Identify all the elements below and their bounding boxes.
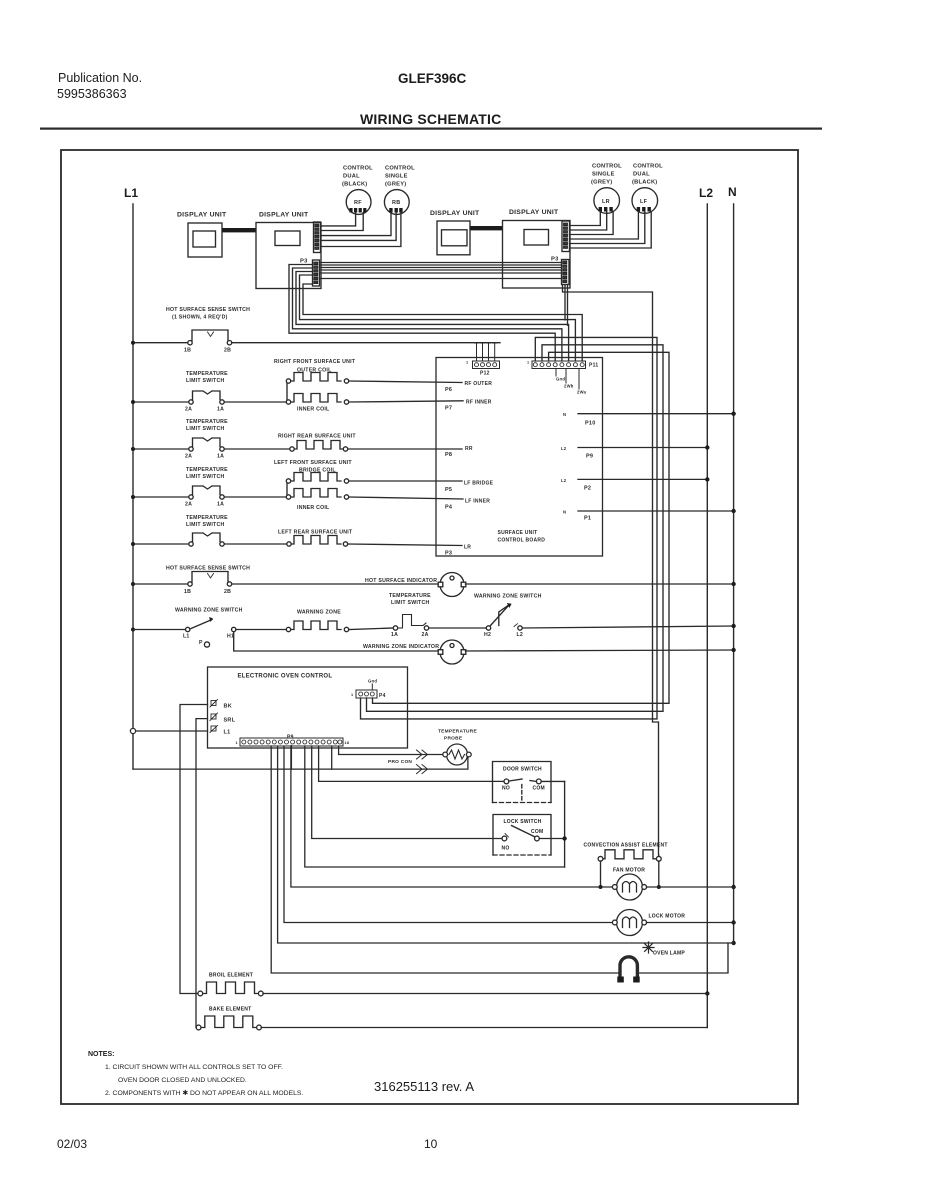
svg-text:Publication No.: Publication No.	[58, 71, 142, 85]
svg-text:NO: NO	[502, 846, 510, 852]
svg-text:RF: RF	[354, 200, 362, 206]
svg-text:P3: P3	[551, 257, 559, 263]
svg-text:PRO CON: PRO CON	[388, 759, 412, 765]
svg-text:LOCK SWITCH: LOCK SWITCH	[504, 819, 542, 825]
svg-text:1A: 1A	[217, 407, 224, 413]
svg-text:LOCK MOTOR: LOCK MOTOR	[649, 914, 686, 920]
svg-text:5995386363: 5995386363	[57, 87, 127, 101]
svg-text:P10: P10	[585, 421, 596, 427]
svg-text:DISPLAY UNIT: DISPLAY UNIT	[430, 210, 480, 217]
svg-text:(1 SHOWN, 4 REQ'D): (1 SHOWN, 4 REQ'D)	[172, 315, 228, 321]
svg-text:FAN MOTOR: FAN MOTOR	[613, 868, 645, 874]
svg-text:WARNING ZONE INDICATOR: WARNING ZONE INDICATOR	[363, 644, 439, 650]
svg-text:1: 1	[466, 361, 468, 365]
svg-text:CONTROL BOARD: CONTROL BOARD	[498, 538, 546, 544]
svg-text:L1: L1	[124, 186, 138, 200]
svg-text:RR: RR	[465, 446, 473, 452]
svg-text:1: 1	[236, 741, 238, 745]
svg-text:NOTES:: NOTES:	[88, 1051, 114, 1058]
svg-text:2A: 2A	[185, 454, 192, 460]
svg-text:LEFT REAR SURFACE UNIT: LEFT REAR SURFACE UNIT	[278, 530, 353, 536]
svg-text:TEMPERATURE: TEMPERATURE	[186, 419, 228, 425]
svg-text:DISPLAY UNIT: DISPLAY UNIT	[509, 209, 559, 216]
svg-text:2A: 2A	[422, 632, 429, 638]
svg-text:TEMPERATURE: TEMPERATURE	[186, 467, 228, 473]
svg-text:(BLACK): (BLACK)	[342, 182, 367, 188]
svg-text:L2: L2	[561, 478, 567, 483]
svg-text:LF: LF	[640, 199, 648, 205]
svg-text:LIMIT SWITCH: LIMIT SWITCH	[391, 600, 429, 606]
svg-text:N: N	[563, 412, 566, 417]
svg-text:Gnd: Gnd	[556, 377, 565, 382]
svg-text:LEFT FRONT SURFACE UNIT: LEFT FRONT SURFACE UNIT	[274, 460, 352, 466]
svg-text:P12: P12	[480, 371, 490, 377]
svg-text:BAKE ELEMENT: BAKE ELEMENT	[209, 1007, 251, 1013]
svg-text:TEMPERATURE: TEMPERATURE	[186, 371, 228, 377]
svg-text:1: 1	[351, 693, 353, 697]
svg-text:BRIDGE COIL: BRIDGE COIL	[299, 468, 336, 474]
svg-text:316255113 rev. A: 316255113 rev. A	[374, 1079, 474, 1094]
svg-text:WARNING ZONE: WARNING ZONE	[297, 610, 341, 616]
svg-text:OVEN DOOR CLOSED AND UNLOCKED.: OVEN DOOR CLOSED AND UNLOCKED.	[118, 1077, 247, 1084]
svg-text:18: 18	[345, 741, 350, 745]
svg-text:OVEN LAMP: OVEN LAMP	[653, 951, 685, 957]
svg-text:P6: P6	[445, 387, 452, 393]
svg-text:BK: BK	[224, 704, 232, 710]
svg-text:LR: LR	[602, 199, 610, 205]
svg-text:TEMPERATURE: TEMPERATURE	[438, 729, 477, 735]
svg-text:P4: P4	[445, 505, 453, 511]
svg-text:LIMIT SWITCH: LIMIT SWITCH	[186, 378, 224, 384]
svg-text:CONTROL: CONTROL	[633, 164, 663, 170]
svg-text:WARNING ZONE SWITCH: WARNING ZONE SWITCH	[474, 594, 542, 600]
svg-text:OUTER COIL: OUTER COIL	[297, 368, 332, 374]
svg-text:LF INNER: LF INNER	[465, 499, 490, 505]
svg-text:HOT SURFACE SENSE SWITCH: HOT SURFACE SENSE SWITCH	[166, 566, 250, 572]
svg-text:P: P	[199, 640, 203, 646]
svg-text:ELECTRONIC OVEN CONTROL: ELECTRONIC OVEN CONTROL	[238, 674, 333, 680]
svg-text:TEMPERATURE: TEMPERATURE	[186, 515, 228, 521]
svg-text:1. CIRCUIT SHOWN WITH ALL CON: 1. CIRCUIT SHOWN WITH ALL CONTROLS SET T…	[105, 1064, 283, 1071]
svg-text:N: N	[563, 510, 566, 515]
svg-text:P11: P11	[589, 363, 598, 369]
svg-text:2A: 2A	[185, 502, 192, 508]
svg-text:COM: COM	[533, 786, 545, 792]
svg-text:1: 1	[527, 361, 529, 365]
svg-text:TEMPERATURE: TEMPERATURE	[389, 593, 431, 599]
svg-text:BROIL ELEMENT: BROIL ELEMENT	[209, 973, 253, 979]
svg-text:P5: P5	[445, 487, 452, 493]
svg-text:L1: L1	[183, 634, 190, 640]
svg-text:(BLACK): (BLACK)	[632, 180, 657, 186]
svg-text:P7: P7	[445, 406, 452, 412]
svg-text:L1: L1	[224, 730, 231, 736]
svg-text:LR: LR	[464, 545, 471, 551]
svg-text:GLEF396C: GLEF396C	[398, 71, 467, 86]
svg-text:L2: L2	[699, 186, 713, 200]
svg-text:2B: 2B	[224, 589, 231, 595]
svg-text:RIGHT FRONT SURFACE UNIT: RIGHT FRONT SURFACE UNIT	[274, 359, 356, 365]
svg-text:CONTROL: CONTROL	[343, 166, 373, 172]
svg-text:RIGHT REAR SURFACE UNIT: RIGHT REAR SURFACE UNIT	[278, 434, 356, 440]
svg-text:N: N	[728, 185, 737, 199]
svg-text:INNER COIL: INNER COIL	[297, 505, 330, 511]
svg-text:2B: 2B	[224, 348, 231, 354]
svg-text:P8: P8	[445, 452, 452, 458]
svg-text:10: 10	[424, 1137, 438, 1151]
svg-text:2. COMPONENTS WITH ✱ DO NOT: 2. COMPONENTS WITH ✱ DO NOT APPEAR ON AL…	[105, 1089, 303, 1097]
svg-text:RF OUTER: RF OUTER	[465, 381, 493, 387]
svg-text:NO: NO	[502, 786, 510, 792]
svg-text:HOT SURFACE INDICATOR: HOT SURFACE INDICATOR	[365, 578, 437, 584]
svg-text:LIMIT SWITCH: LIMIT SWITCH	[186, 474, 224, 480]
svg-text:SRL: SRL	[224, 718, 236, 724]
svg-text:HOT SURFACE SENSE SWITCH: HOT SURFACE SENSE SWITCH	[166, 307, 250, 313]
svg-text:H1: H1	[227, 634, 234, 640]
svg-text:P1: P1	[584, 516, 591, 522]
svg-text:DISPLAY UNIT: DISPLAY UNIT	[177, 212, 227, 219]
svg-text:P2: P2	[584, 486, 591, 492]
svg-text:P3: P3	[445, 551, 452, 557]
svg-text:2Wb: 2Wb	[564, 384, 574, 389]
svg-text:LIMIT SWITCH: LIMIT SWITCH	[186, 426, 224, 432]
svg-text:1A: 1A	[217, 454, 224, 460]
svg-text:RB: RB	[392, 200, 400, 206]
svg-text:H2: H2	[484, 632, 491, 638]
svg-text:2A: 2A	[185, 407, 192, 413]
svg-text:COM: COM	[531, 829, 543, 835]
svg-text:CONTROL: CONTROL	[592, 164, 622, 170]
svg-text:P9: P9	[287, 735, 294, 741]
svg-text:DISPLAY UNIT: DISPLAY UNIT	[259, 212, 309, 219]
svg-text:DUAL: DUAL	[343, 174, 360, 180]
svg-text:02/03: 02/03	[57, 1137, 87, 1151]
svg-text:DUAL: DUAL	[633, 172, 650, 178]
svg-text:2Wa: 2Wa	[577, 390, 587, 395]
svg-text:WIRING SCHEMATIC: WIRING SCHEMATIC	[360, 111, 501, 127]
svg-text:PROBE: PROBE	[444, 736, 463, 742]
svg-text:P4: P4	[379, 693, 386, 699]
svg-text:INNER COIL: INNER COIL	[297, 407, 330, 413]
svg-text:(GREY): (GREY)	[385, 182, 406, 188]
svg-text:Gnd: Gnd	[368, 679, 377, 684]
svg-text:(GREY): (GREY)	[591, 180, 612, 186]
svg-text:1A: 1A	[217, 502, 224, 508]
svg-text:SURFACE UNIT: SURFACE UNIT	[498, 530, 538, 536]
svg-text:SINGLE: SINGLE	[592, 172, 615, 178]
svg-text:1A: 1A	[391, 632, 398, 638]
svg-text:CONVECTION ASSIST ELEMENT: CONVECTION ASSIST ELEMENT	[584, 843, 668, 849]
svg-text:L2: L2	[561, 446, 567, 451]
svg-text:1B: 1B	[184, 348, 191, 354]
svg-text:LIMIT SWITCH: LIMIT SWITCH	[186, 522, 224, 528]
svg-text:WARNING ZONE SWITCH: WARNING ZONE SWITCH	[175, 608, 243, 614]
svg-text:CONTROL: CONTROL	[385, 166, 415, 172]
svg-text:P9: P9	[586, 454, 593, 460]
svg-text:SINGLE: SINGLE	[385, 174, 408, 180]
svg-text:1B: 1B	[184, 589, 191, 595]
svg-text:P3: P3	[300, 259, 308, 265]
svg-text:LF BRIDGE: LF BRIDGE	[464, 481, 494, 487]
svg-text:L2: L2	[517, 632, 524, 638]
svg-text:DOOR SWITCH: DOOR SWITCH	[503, 767, 542, 773]
svg-text:RF INNER: RF INNER	[466, 400, 492, 406]
